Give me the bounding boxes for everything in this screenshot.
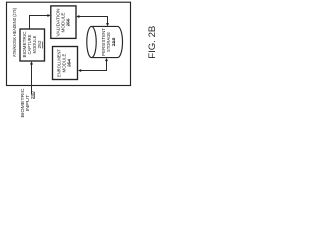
underline of 258 [113,39,115,46]
underline of 252 [41,42,43,49]
svg-text:ATM/KIOSK HEADEND (275): ATM/KIOSK HEADEND (275) [12,8,17,57]
block: validation module 256 [51,6,76,39]
underline of 256 [67,19,69,26]
svg-text:258: 258 [111,37,116,47]
svg-text:252: 252 [37,40,42,49]
cylinder: persistent storage 258 [92,26,123,57]
wire: validation module <-> persistent storage [79,17,108,24]
wire: enrollment module <-> persistent storage [81,60,107,70]
label: biometric input 250 [20,89,30,118]
wire: capture module -> validation module [30,16,49,30]
outer box ATM/KIOSK HEADEND (275) [7,2,131,85]
underline of 254 [68,60,70,67]
svg-text:250: 250 [30,91,35,100]
block: enrollment module 254 [53,47,78,80]
svg-text:FIG. 2B: FIG. 2B [147,26,157,59]
block: biometric capture module 252 [20,29,45,61]
wire: biometric input -> capture module [31,64,33,95]
underline of 250 [34,92,36,99]
